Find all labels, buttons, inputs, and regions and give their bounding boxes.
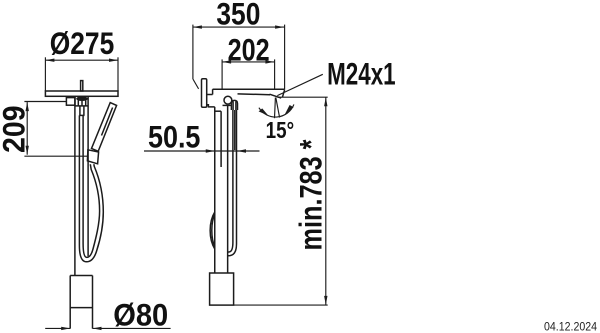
svg-text:Ø275: Ø275	[50, 26, 115, 61]
svg-text:04.12.2024: 04.12.2024	[544, 320, 597, 333]
svg-text:15°: 15°	[266, 117, 295, 143]
svg-text:min.783 *: min.783 *	[294, 139, 329, 251]
svg-text:50.5: 50.5	[148, 120, 201, 155]
svg-text:Ø80: Ø80	[113, 298, 168, 333]
svg-text:M24x1: M24x1	[327, 56, 396, 91]
